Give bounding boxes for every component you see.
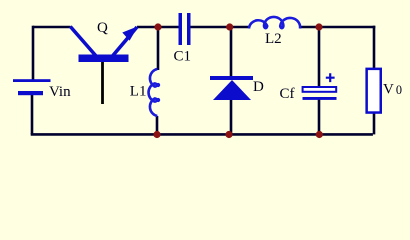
svg-text:0: 0 (396, 83, 402, 97)
svg-text:C1: C1 (174, 49, 192, 65)
svg-text:Vin: Vin (49, 84, 71, 100)
svg-text:V: V (383, 82, 394, 98)
svg-text:D: D (253, 79, 264, 95)
svg-text:L2: L2 (265, 31, 282, 47)
svg-text:Cf: Cf (280, 86, 295, 102)
svg-text:L1: L1 (130, 84, 147, 100)
svg-text:Q: Q (97, 20, 108, 36)
